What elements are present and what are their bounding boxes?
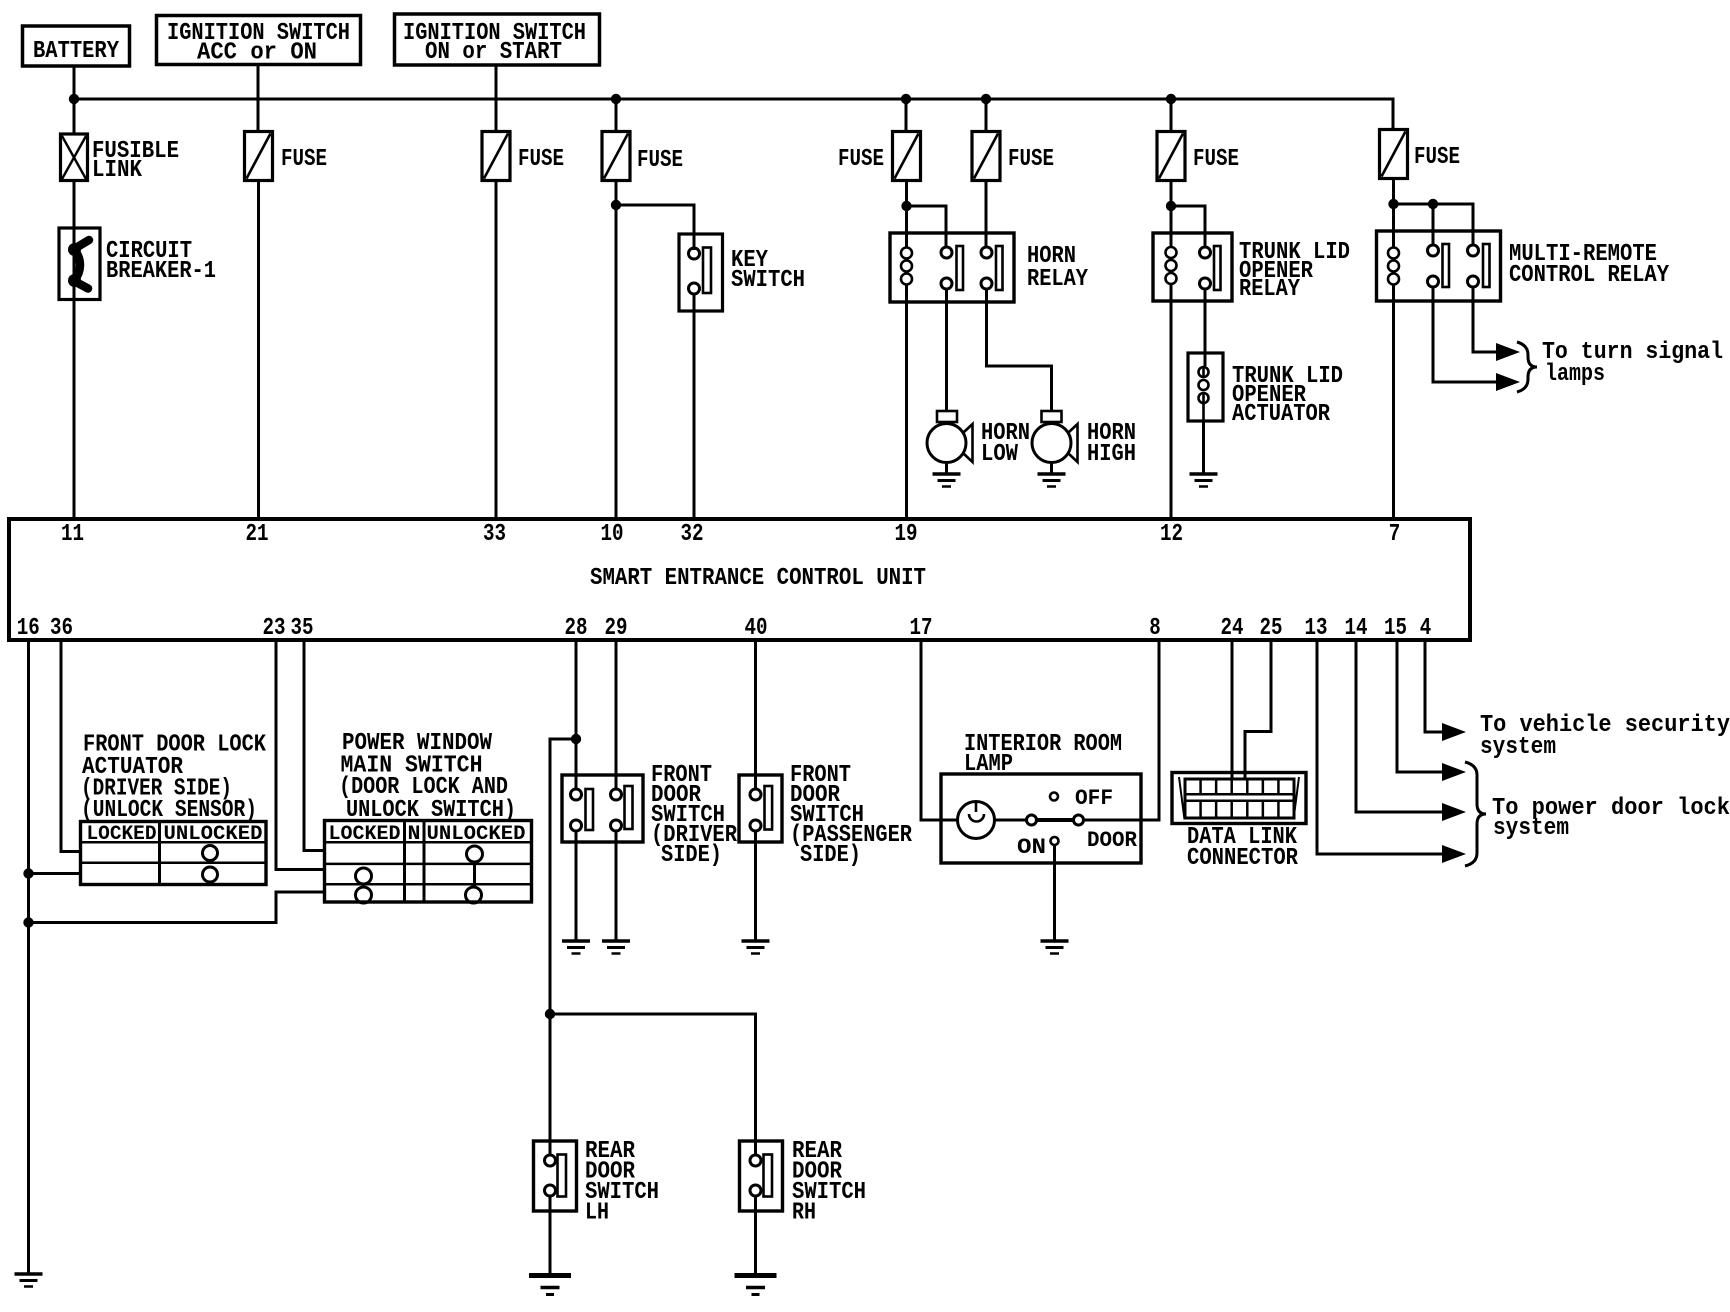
smart entrance control unit U1 xyxy=(9,519,1470,640)
wire pin 4 to vehicle security arrow xyxy=(1425,640,1443,732)
svg-text:FUSE: FUSE xyxy=(1008,146,1054,173)
fuse F3 xyxy=(602,132,630,181)
ground horn low xyxy=(933,472,961,476)
multi-remote contact set 2 xyxy=(1468,245,1479,256)
fuse F1 xyxy=(245,132,273,181)
trunk lid opener actuator M1 xyxy=(1188,353,1223,421)
svg-text:12: 12 xyxy=(1160,521,1183,548)
power window switch locked contact row4 xyxy=(356,887,372,903)
junction bus fuse F6 tap xyxy=(1166,94,1176,104)
wire node E down to contact 1 xyxy=(1432,204,1435,245)
wire fuse F4 to node B xyxy=(905,181,908,207)
svg-text:FUSE: FUSE xyxy=(838,146,884,173)
svg-text:25: 25 xyxy=(1260,615,1283,642)
wire fuse F5 to horn relay contact 2 xyxy=(985,181,988,248)
wire pin 14 to power door lock arrow 2 xyxy=(1356,640,1443,812)
wire rear LH to ground xyxy=(549,1196,552,1274)
lamp switch on contact xyxy=(1051,837,1059,845)
arrow power door lock 3 xyxy=(1442,845,1466,863)
data link connector J1 xyxy=(1172,773,1306,824)
wire pin 35 to power window switch row 1 xyxy=(304,640,325,851)
arrow to turn signal lamps 1 xyxy=(1496,343,1520,361)
svg-text:system: system xyxy=(1480,734,1556,761)
wire node B to horn relay contact xyxy=(907,206,947,247)
wire ign acc to fuse F1 xyxy=(257,65,260,133)
wire driver switch pin1 to ground xyxy=(575,831,578,941)
svg-text:LOW: LOW xyxy=(981,441,1019,468)
rear door switch RH box xyxy=(740,1141,783,1211)
wire pin 40 to front door switch passenger xyxy=(754,640,757,790)
svg-text:LOCKED: LOCKED xyxy=(87,823,157,846)
arrow power door lock 2 xyxy=(1442,803,1466,821)
svg-text:FUSE: FUSE xyxy=(281,146,327,173)
svg-text:lamps: lamps xyxy=(1545,361,1605,388)
lamp switch door contact xyxy=(1074,815,1084,825)
arrow to turn signal lamps 2 xyxy=(1496,373,1520,391)
node D junction below fuse F7 xyxy=(1388,199,1398,209)
svg-text:24: 24 xyxy=(1221,615,1244,642)
wire rear RH to ground xyxy=(754,1196,757,1274)
wire pin 36 to actuator table row 2 xyxy=(61,640,81,852)
node A junction below fuse F3 xyxy=(611,200,621,210)
wire pin16 branch to power window switch row 3 xyxy=(29,892,326,923)
node B junction below fuse F4 xyxy=(901,201,911,211)
svg-text:RELAY: RELAY xyxy=(1027,266,1089,293)
svg-text:7: 7 xyxy=(1389,521,1401,548)
wire pin 15 to power door lock arrow 1 xyxy=(1397,640,1443,772)
wire circuit breaker to pin 11 xyxy=(73,300,76,520)
junction bus fuse F3 tap xyxy=(611,94,621,104)
svg-text:21: 21 xyxy=(246,521,269,548)
trunk lid opener relay K2 box xyxy=(1153,233,1232,301)
wire bus to fuse F6 xyxy=(1170,99,1173,132)
actuator table contact row2 xyxy=(203,846,218,861)
wire node C to trunk relay contact xyxy=(1171,206,1205,247)
power window switch locked contact row3 xyxy=(356,868,372,884)
wire pin 24 to data link connector xyxy=(1231,640,1234,780)
trunk relay contact set xyxy=(1200,247,1211,258)
multi-remote contact set 1 xyxy=(1428,245,1439,256)
horn relay coil xyxy=(905,206,908,248)
wire fuse F2 to pin 33 xyxy=(495,181,498,520)
junction bus fuse F5 tap xyxy=(981,94,991,104)
fusible link FL xyxy=(61,134,88,181)
fuse F2 xyxy=(482,132,510,181)
arrow to vehicle security system xyxy=(1442,723,1466,741)
wire lamp to pin 8 xyxy=(1084,640,1160,820)
wire horn relay to horn low xyxy=(945,289,948,412)
svg-text:16: 16 xyxy=(17,615,40,642)
junction pin16 to actuator table xyxy=(23,868,33,878)
horn low HL xyxy=(937,411,957,422)
interior room lamp box xyxy=(941,774,1141,863)
svg-text:BATTERY: BATTERY xyxy=(33,38,119,65)
svg-text:36: 36 xyxy=(50,615,73,642)
wire multi-remote contact 2 to turn signal arrow 1 xyxy=(1473,287,1497,352)
svg-text:8: 8 xyxy=(1149,615,1161,642)
multi-remote control relay K3 box xyxy=(1377,231,1501,301)
svg-text:ACC or ON: ACC or ON xyxy=(197,40,317,67)
svg-text:29: 29 xyxy=(605,615,628,642)
svg-text:UNLOCKED: UNLOCKED xyxy=(427,823,526,846)
wire to rear door switch RH xyxy=(550,1014,756,1156)
lamp switch blade xyxy=(1037,818,1073,822)
svg-text:FUSE: FUSE xyxy=(637,147,683,174)
wire bulb to lamp switch xyxy=(995,819,1027,822)
svg-text:ON: ON xyxy=(1017,835,1046,860)
wire pin 28 to front door switch driver xyxy=(575,640,578,790)
wire fuse F1 to pin 21 xyxy=(257,181,260,520)
svg-text:CONNECTOR: CONNECTOR xyxy=(1187,845,1299,872)
wire actuator to ground xyxy=(1202,421,1205,474)
wire node E to multi-remote contact 2 xyxy=(1433,204,1473,245)
wire battery to bus xyxy=(73,66,76,99)
svg-text:10: 10 xyxy=(601,521,624,548)
svg-text:UNLOCKED: UNLOCKED xyxy=(164,823,263,846)
svg-text:17: 17 xyxy=(910,615,933,642)
wire bus to fusible link xyxy=(73,99,76,134)
wire multi-remote coil to pin 7 xyxy=(1392,284,1395,519)
svg-text:RELAY: RELAY xyxy=(1239,276,1301,303)
wire driver switch pin2 to ground xyxy=(615,831,618,941)
power source box BATTERY xyxy=(23,26,130,66)
power window switch unlocked contact row4 xyxy=(466,887,482,903)
battery bus wire xyxy=(74,99,1393,131)
wire ign start to fuse F2 xyxy=(495,65,498,131)
multi-remote relay coil xyxy=(1392,204,1395,248)
svg-text:SIDE): SIDE) xyxy=(800,842,861,869)
svg-text:OFF: OFF xyxy=(1075,786,1113,811)
svg-text:40: 40 xyxy=(745,615,768,642)
junction pin16 lower branch xyxy=(23,917,33,927)
svg-text:33: 33 xyxy=(483,521,506,548)
circuit breaker CB1 xyxy=(59,228,100,300)
interior lamp bulb xyxy=(958,802,995,839)
lamp switch off contact xyxy=(1050,793,1058,801)
ground interior lamp xyxy=(1041,939,1069,943)
wire node D to node E xyxy=(1394,203,1434,206)
wire pin 25 to data link connector xyxy=(1245,640,1271,780)
svg-text:RH: RH xyxy=(792,1200,816,1227)
wire multi-remote contact 1 to turn signal arrow 2 xyxy=(1433,287,1497,382)
brace turn signal lamps xyxy=(1517,342,1537,392)
wire pin 13 to power door lock arrow 3 xyxy=(1317,640,1443,854)
wire key switch to pin 32 xyxy=(693,294,696,519)
svg-text:HIGH: HIGH xyxy=(1087,441,1136,468)
fuse F7 xyxy=(1380,130,1408,179)
svg-text:32: 32 xyxy=(681,521,704,548)
ground pin16 wire bottom xyxy=(15,1272,43,1276)
svg-text:LINK: LINK xyxy=(92,157,143,184)
wire bus to fuse F4 xyxy=(905,99,908,132)
wire pin 23 to power window switch row 2 xyxy=(276,640,325,870)
svg-text:FUSE: FUSE xyxy=(1193,146,1239,173)
front door switch passenger side box xyxy=(739,775,782,842)
ground trunk actuator xyxy=(1190,472,1218,476)
wire pin 29 to front door switch driver 2 xyxy=(615,640,618,790)
svg-text:23: 23 xyxy=(263,615,286,642)
wire bus to fuse F3 xyxy=(615,99,618,132)
wire pin 16 main run xyxy=(27,640,30,1274)
wire trunk relay coil to pin 12 xyxy=(1170,284,1173,519)
svg-text:28: 28 xyxy=(565,615,588,642)
wire horn relay coil to pin 19 xyxy=(905,284,908,519)
svg-text:FUSE: FUSE xyxy=(518,146,564,173)
svg-text:SIDE): SIDE) xyxy=(661,842,722,869)
fuse F6 xyxy=(1157,132,1185,181)
wire horn relay to horn high xyxy=(987,289,1052,412)
svg-text:ACTUATOR: ACTUATOR xyxy=(1232,401,1331,428)
arrow power door lock 1 xyxy=(1442,763,1466,781)
horn relay contact set 2 xyxy=(981,247,992,258)
svg-text:15: 15 xyxy=(1384,615,1407,642)
actuator table contact row3 xyxy=(203,867,218,882)
svg-text:19: 19 xyxy=(895,521,918,548)
svg-text:system: system xyxy=(1493,815,1569,842)
svg-text:CONTROL RELAY: CONTROL RELAY xyxy=(1509,262,1670,289)
wire fusible link to circuit breaker xyxy=(73,181,76,229)
key switch KS xyxy=(679,234,723,311)
wire node A to key switch xyxy=(616,205,694,250)
horn high HH xyxy=(1042,411,1062,422)
rear door switch LH box xyxy=(534,1141,577,1211)
junction bus fuse F4 tap xyxy=(901,94,911,104)
node C junction below fuse F6 xyxy=(1166,201,1176,211)
junction rear door switch split xyxy=(545,1009,555,1019)
node E junction multi-remote contact 1 xyxy=(1428,199,1438,209)
power window main switch table xyxy=(325,821,532,903)
wire passenger switch to ground xyxy=(754,831,757,941)
ground front door switch driver 2 xyxy=(602,939,630,943)
svg-text:SMART ENTRANCE CONTROL UNIT: SMART ENTRANCE CONTROL UNIT xyxy=(590,565,926,592)
ground rear door switch RH xyxy=(735,1273,777,1278)
wire horn high to ground xyxy=(1050,464,1053,475)
svg-text:SWITCH: SWITCH xyxy=(731,267,805,294)
wire pin 17 to interior lamp xyxy=(921,640,957,820)
svg-text:14: 14 xyxy=(1345,615,1368,642)
fuse F5 xyxy=(972,132,1000,181)
wire horn low to ground xyxy=(945,464,948,475)
wire fuse F6 to node C xyxy=(1170,181,1173,207)
wire fuse F3 to node A xyxy=(615,181,618,206)
svg-text:DOOR: DOOR xyxy=(1087,828,1138,853)
svg-text:35: 35 xyxy=(291,615,314,642)
wire trunk relay to actuator xyxy=(1204,289,1207,366)
svg-text:LOCKED: LOCKED xyxy=(329,823,401,846)
wire bus to fuse F5 xyxy=(985,99,988,132)
wire branch to rear door switches xyxy=(550,739,576,1156)
svg-text:LH: LH xyxy=(585,1200,609,1227)
front door switch driver side box xyxy=(562,775,643,842)
lamp switch common contact xyxy=(1027,815,1037,825)
wire lamp switch on contact to ground xyxy=(1053,845,1056,941)
brace power door lock system xyxy=(1465,762,1486,866)
power source box IGNITION SWITCH ACC or ON xyxy=(157,16,361,65)
ground front door switch passenger xyxy=(742,939,770,943)
fuse F4 xyxy=(893,132,921,181)
svg-text:13: 13 xyxy=(1305,615,1328,642)
junction pin28 rear door branch xyxy=(571,734,581,744)
svg-text:FUSE: FUSE xyxy=(1414,144,1460,171)
svg-text:BREAKER-1: BREAKER-1 xyxy=(106,258,216,285)
wire node A to pin 10 xyxy=(615,205,618,519)
wire linking unlocked contacts xyxy=(473,862,476,887)
wire junction to actuator table row 3 xyxy=(29,872,82,875)
ground front door switch driver 1 xyxy=(562,939,590,943)
svg-text:N: N xyxy=(408,823,421,846)
power source box IGNITION SWITCH ON or START xyxy=(395,14,600,65)
svg-text:11: 11 xyxy=(61,521,84,548)
horn relay K1 box xyxy=(890,233,1014,302)
front door lock actuator table xyxy=(81,822,267,885)
trunk relay coil xyxy=(1170,206,1173,248)
horn relay contact set 1 xyxy=(941,247,952,258)
svg-text:ON or START: ON or START xyxy=(425,39,562,66)
junction battery/bus xyxy=(69,94,79,104)
ground rear door switch LH xyxy=(529,1273,571,1278)
ground horn high xyxy=(1038,472,1066,476)
wire fuse F7 to node D xyxy=(1392,179,1395,205)
svg-text:4: 4 xyxy=(1420,615,1432,642)
power window switch unlocked contact row2 xyxy=(467,846,483,862)
